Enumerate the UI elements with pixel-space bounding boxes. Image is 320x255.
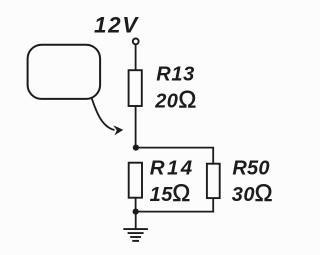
wire (terminal to R13 top) — [135, 45, 137, 71]
svg-text:20: 20 — [154, 90, 178, 112]
svg-text:30: 30 — [232, 184, 255, 206]
wire (junction to ground) — [135, 212, 137, 229]
svg-text:Ω: Ω — [178, 86, 196, 113]
wire (top horizontal to R50 branch) — [136, 148, 213, 164]
terminal (12V supply pin) — [133, 39, 139, 45]
resistor R13 — [129, 70, 142, 106]
junction node (bottom of parallel pair) — [133, 209, 139, 215]
callout arrowhead — [113, 125, 123, 135]
svg-text:15: 15 — [150, 184, 174, 206]
svg-text:Ω: Ω — [172, 180, 190, 207]
callout box (empty annotation bubble) — [28, 45, 101, 99]
svg-text:Ω: Ω — [255, 180, 273, 207]
svg-text:12V: 12V — [94, 13, 139, 38]
wire (R14 bottom to bottom junction) — [135, 198, 137, 212]
svg-text:R50: R50 — [232, 157, 269, 179]
ground — [123, 229, 148, 241]
resistor R50 — [207, 164, 220, 198]
wire (R13 bottom to junction) — [135, 106, 137, 148]
junction node (top of parallel pair) — [133, 145, 139, 151]
svg-text:R14: R14 — [150, 157, 195, 180]
resistor R14 — [129, 163, 142, 198]
wire (R50 bottom to bottom rail) — [136, 198, 214, 212]
svg-text:R13: R13 — [156, 63, 195, 85]
callout arrow (curved leader) — [92, 99, 115, 130]
